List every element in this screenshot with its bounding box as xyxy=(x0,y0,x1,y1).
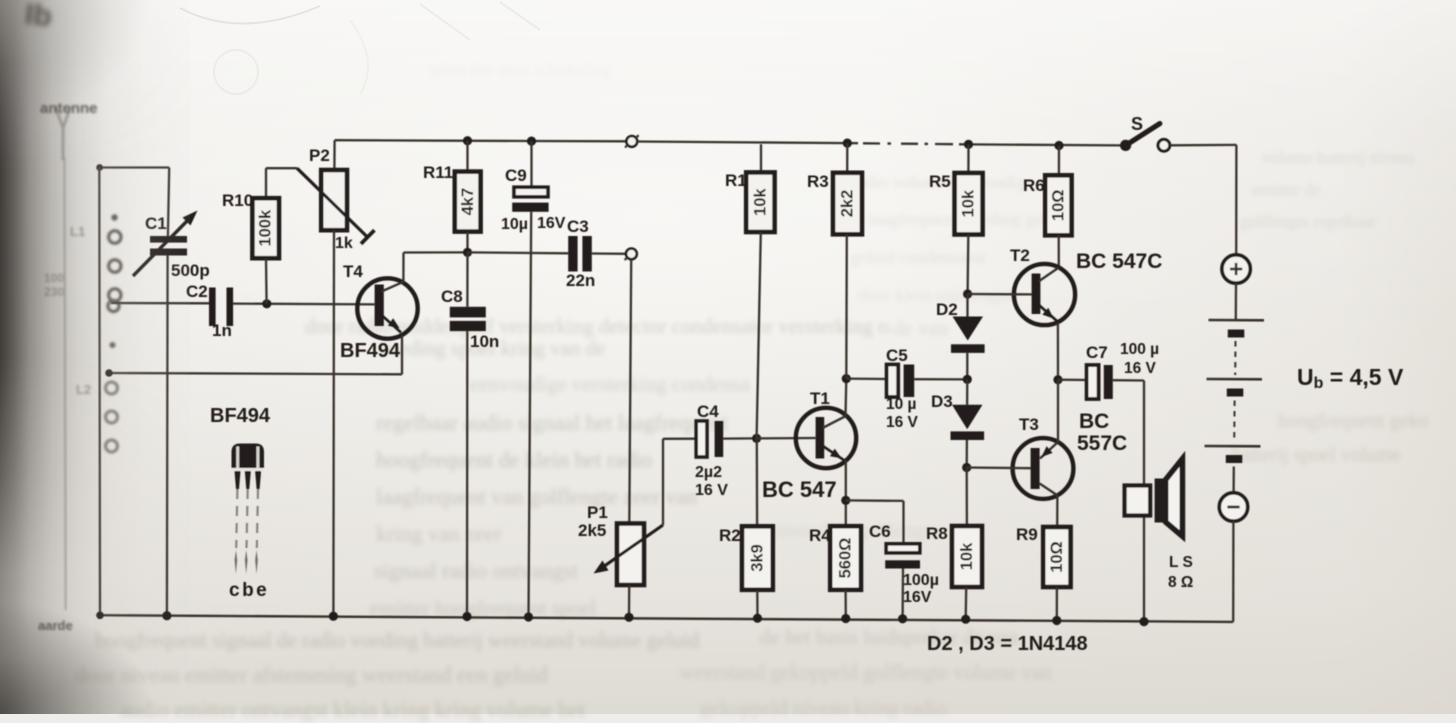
svg-text:BC: BC xyxy=(1079,410,1109,433)
wire R11 node to C3 xyxy=(468,251,569,254)
svg-text:R6: R6 xyxy=(1023,176,1045,195)
wire bottom ground rail xyxy=(97,615,1233,622)
svg-text:10Ω: 10Ω xyxy=(1048,541,1066,573)
svg-text:D2 , D3 = 1N4148: D2 , D3 = 1N4148 xyxy=(927,633,1088,655)
switch S xyxy=(1120,114,1170,151)
node test point after C3 xyxy=(625,249,637,261)
svg-text:BC 547C: BC 547C xyxy=(1076,250,1162,273)
svg-text:10k: 10k xyxy=(958,542,976,570)
svg-text:10µ: 10µ xyxy=(501,216,528,233)
label Ub = 4,5 V xyxy=(1297,364,1404,392)
diode D2 1N4148 xyxy=(951,294,985,384)
resistor R5 10k xyxy=(955,140,983,299)
svg-text:230: 230 xyxy=(44,285,64,299)
label L1 (faded) xyxy=(44,224,91,397)
resistor R4 560R xyxy=(830,526,861,618)
svg-text:cbe: cbe xyxy=(229,580,269,601)
resistor R6 10R xyxy=(1045,141,1071,267)
label C1 text xyxy=(0,0,1,1)
wire C4 to T1 base xyxy=(752,434,816,443)
svg-text:4k7: 4k7 xyxy=(459,188,477,216)
capacitor C8 10n xyxy=(450,252,486,616)
svg-text:16V: 16V xyxy=(537,215,566,232)
svg-text:antenne: antenne xyxy=(40,100,98,117)
wire T1 emitter to R4 and C6 node xyxy=(841,460,850,526)
svg-text:L S: L S xyxy=(1169,554,1193,571)
svg-text:1k: 1k xyxy=(335,235,353,252)
capacitor C1 variable 500p xyxy=(133,211,198,277)
svg-text:10n: 10n xyxy=(470,332,499,351)
svg-text:R9: R9 xyxy=(1016,525,1038,544)
wire C2 to T4 base with R10 junction xyxy=(233,299,374,308)
svg-text:100 µ: 100 µ xyxy=(1120,341,1159,358)
transistor T3 BC557C xyxy=(1013,438,1074,499)
svg-text:500p: 500p xyxy=(171,261,210,280)
resistor R11 4k7 xyxy=(455,136,481,257)
svg-text:2k2: 2k2 xyxy=(838,190,856,218)
capacitor C3 22n xyxy=(568,236,626,272)
wire top supply rail middle section xyxy=(637,142,847,144)
svg-text:R5: R5 xyxy=(929,172,951,191)
svg-text:10k: 10k xyxy=(751,188,769,216)
wire D3 node to T3 base xyxy=(967,466,1031,469)
capacitor C4 2u2 16V electrolytic xyxy=(696,421,756,457)
svg-text:L2: L2 xyxy=(76,382,91,397)
svg-text:16 V: 16 V xyxy=(695,482,728,499)
svg-text:16V: 16V xyxy=(903,589,932,606)
wire T4 collector up to R11 node xyxy=(403,252,467,282)
transistor T1 BC547 xyxy=(796,408,856,468)
svg-text:C2: C2 xyxy=(186,282,208,301)
potentiometer P1 2k5 volume xyxy=(594,524,664,618)
wire C7 to loudspeaker column xyxy=(1143,381,1145,622)
capacitor C6 100u 16V electrolytic xyxy=(885,544,920,619)
svg-text:BF494: BF494 xyxy=(340,340,401,362)
svg-text:Ub = 4,5 V: Ub = 4,5 V xyxy=(1297,364,1404,392)
resistor R1 10k xyxy=(746,144,774,438)
antenna (faded) xyxy=(56,107,71,160)
svg-text:T3: T3 xyxy=(1019,415,1039,434)
wire T4 emitter down to coil tap xyxy=(105,335,402,377)
resistor R3 2k2 xyxy=(833,139,862,379)
svg-text:C5: C5 xyxy=(886,346,908,365)
svg-text:16 V: 16 V xyxy=(886,414,919,431)
capacitor C2 1n xyxy=(209,288,233,327)
svg-text:100k: 100k xyxy=(257,209,275,247)
transistor T4 BF494 xyxy=(357,278,417,338)
svg-text:16 V: 16 V xyxy=(1124,360,1157,377)
svg-text:10Ω: 10Ω xyxy=(1049,190,1067,222)
capacitor C9 10u 16V electrolytic xyxy=(512,137,548,618)
loudspeaker LS 8 ohm xyxy=(1125,459,1183,536)
battery Ub 4,5V three cells xyxy=(1205,283,1265,492)
svg-text:C6: C6 xyxy=(869,522,891,541)
wire antenna lead down left (faded) xyxy=(64,158,66,610)
wire from switch to battery corner xyxy=(1170,145,1236,255)
svg-text:D2: D2 xyxy=(936,300,958,319)
diode D3 1N4148 xyxy=(951,379,985,472)
svg-text:C3: C3 xyxy=(567,217,589,236)
svg-text:10 µ: 10 µ xyxy=(886,396,916,413)
svg-text:557C: 557C xyxy=(1077,432,1127,455)
wire battery minus to ground rail xyxy=(1232,521,1235,622)
transistor BF494 package drawing xyxy=(232,444,265,575)
svg-text:R8: R8 xyxy=(926,524,948,543)
transistor T2 BC547C xyxy=(1014,264,1075,325)
svg-text:8 Ω: 8 Ω xyxy=(1168,574,1193,591)
coil L1 left column wire xyxy=(98,168,101,616)
wire emitter node to C6 xyxy=(846,500,904,543)
coil L1 winding loops xyxy=(106,214,122,452)
svg-text:L1: L1 xyxy=(70,224,85,239)
svg-text:C9: C9 xyxy=(505,166,527,185)
wire C1 column top xyxy=(168,168,169,237)
wire coil tap to C2 xyxy=(111,302,209,305)
svg-text:C7: C7 xyxy=(1086,343,1108,362)
label antenne (faded) xyxy=(40,100,98,117)
svg-text:C8: C8 xyxy=(441,287,463,306)
wire C7 node down to T3 emitter xyxy=(1057,380,1059,442)
svg-text:100: 100 xyxy=(44,271,64,285)
svg-text:T2: T2 xyxy=(1010,246,1030,265)
capacitor C7 100u 16V electrolytic xyxy=(1058,365,1144,399)
svg-text:BC 547: BC 547 xyxy=(762,477,837,502)
svg-text:R10: R10 xyxy=(222,191,253,210)
node test point on supply rail xyxy=(625,135,639,147)
wire top supply rail right section xyxy=(969,144,1121,145)
svg-text:100µ: 100µ xyxy=(903,572,939,589)
svg-text:1n: 1n xyxy=(212,321,232,340)
svg-text:P1: P1 xyxy=(587,503,608,522)
resistor R2 3k9 xyxy=(742,438,773,618)
resistor R10 100k xyxy=(252,168,297,304)
wire T2 emitter to C7 node xyxy=(1053,323,1062,385)
svg-text:R2: R2 xyxy=(719,526,741,545)
battery negative terminal circle xyxy=(1219,493,1247,521)
svg-text:560Ω: 560Ω xyxy=(837,538,855,579)
resistor R8 10k xyxy=(952,468,982,620)
wire P1 wiper up to C4 xyxy=(663,439,696,525)
svg-text:22n: 22n xyxy=(566,271,595,290)
wire dash-dot rail segment xyxy=(847,143,969,144)
svg-text:2µ2: 2µ2 xyxy=(695,464,722,481)
svg-text:R3: R3 xyxy=(807,172,829,191)
svg-text:3k9: 3k9 xyxy=(748,544,766,572)
svg-text:P2: P2 xyxy=(309,146,330,165)
svg-text:10k: 10k xyxy=(959,189,977,217)
wire C3 node down to P1 xyxy=(629,260,631,524)
svg-text:C4: C4 xyxy=(697,402,719,421)
svg-text:R4: R4 xyxy=(809,526,831,545)
svg-text:BF494: BF494 xyxy=(210,405,271,427)
junction dots on ground rail xyxy=(96,611,1148,626)
wire tank circuit top xyxy=(96,164,169,171)
potentiometer P2 1k xyxy=(297,140,374,616)
resistor R9 10R xyxy=(1043,495,1070,620)
svg-text:D3: D3 xyxy=(931,392,953,411)
wire T1 collector to R3 C5 node xyxy=(842,374,851,416)
battery positive terminal circle xyxy=(1222,255,1250,283)
svg-text:S: S xyxy=(1131,114,1143,134)
wire R5 node to T2 base xyxy=(968,293,1032,296)
capacitor C5 10u 16V electrolytic xyxy=(846,365,967,398)
svg-text:C1: C1 xyxy=(145,214,167,233)
wire top supply rail left section xyxy=(335,140,627,141)
wire C1 column to ground rail xyxy=(166,255,169,615)
svg-text:T1: T1 xyxy=(810,389,830,408)
svg-text:R1: R1 xyxy=(725,171,747,190)
svg-text:2k5: 2k5 xyxy=(578,521,606,540)
svg-text:T4: T4 xyxy=(343,262,363,281)
svg-text:R11: R11 xyxy=(423,163,453,182)
